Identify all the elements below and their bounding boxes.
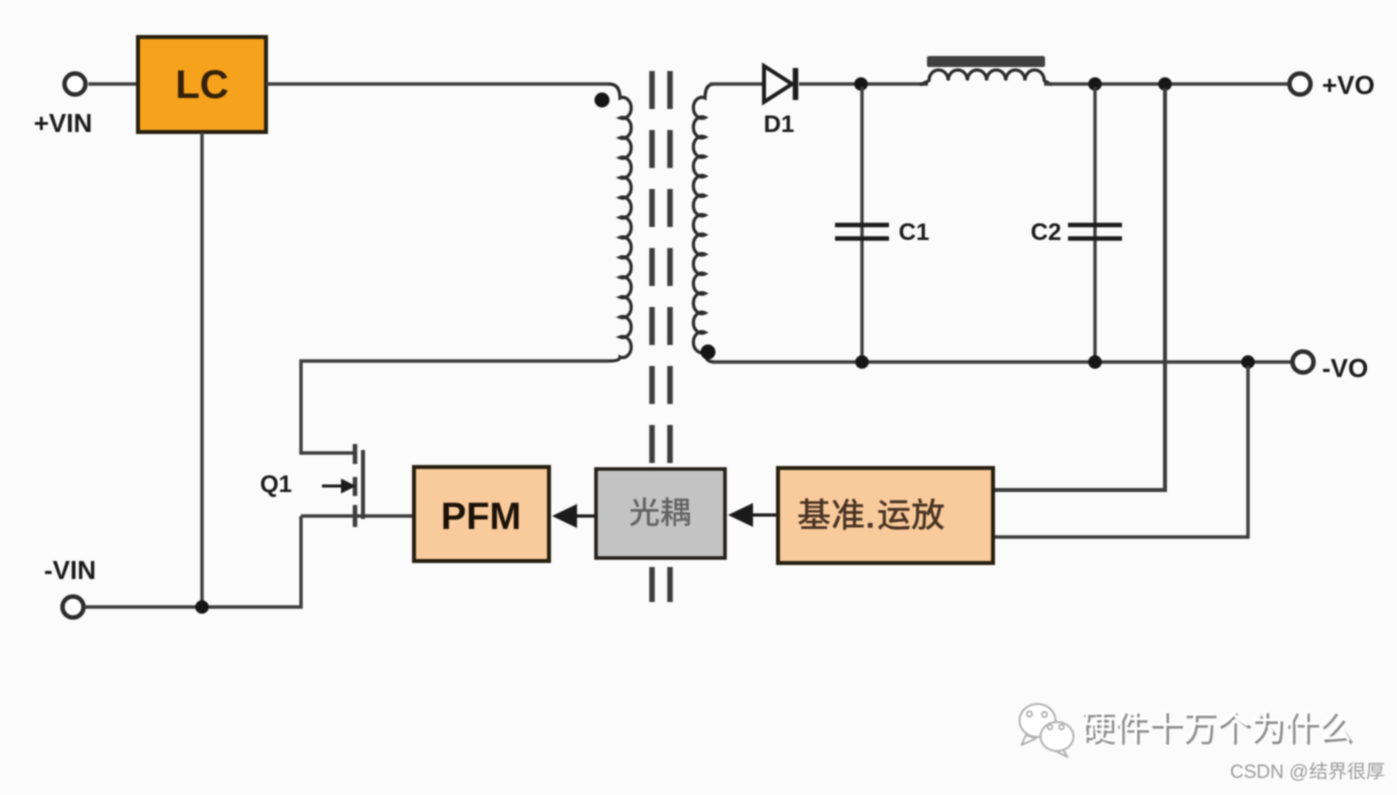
wire Q1 source row to PFM <box>301 514 414 517</box>
terminal +VO <box>1290 74 1311 95</box>
svg-text:CSDN @: CSDN @ <box>1230 762 1308 783</box>
svg-text:+VIN: +VIN <box>34 108 93 138</box>
svg-text:-VIN: -VIN <box>44 555 96 585</box>
feedback wire from +VO node to reference block <box>993 88 1165 490</box>
wire +VIN to LC <box>89 82 139 85</box>
core dash continuation below optocoupler left <box>649 567 655 602</box>
watermark text 硬件十万个为什么 <box>1084 715 1116 745</box>
transformer primary winding <box>609 84 631 361</box>
wire primary bottom to Q1 drain <box>301 361 609 453</box>
block reference and op-amp 基准.运放 <box>778 468 993 563</box>
wire secondary bottom rail to -VO <box>712 360 1291 363</box>
transformer core dashed line right <box>667 71 673 463</box>
wire -VIN rail <box>85 516 302 607</box>
output inductor core bar <box>927 56 1045 67</box>
arrow reference block to optocoupler <box>728 503 779 527</box>
junction dot C2 top node <box>1088 77 1102 91</box>
block PFM <box>414 467 549 561</box>
svg-text:Q1: Q1 <box>260 471 292 498</box>
block optocoupler 光耦 <box>596 469 725 558</box>
svg-text:D1: D1 <box>764 111 795 138</box>
transistor Q1 <box>355 444 363 527</box>
terminal +VIN <box>65 74 86 95</box>
gate arrow of Q1 <box>322 479 356 494</box>
junction dot at D1 output node <box>854 77 868 91</box>
svg-text:C2: C2 <box>1031 219 1062 246</box>
transformer core dashed line left <box>649 71 655 463</box>
wire secondary to D1 anode <box>710 82 766 85</box>
wire inductor to +VO <box>1044 82 1290 85</box>
polarity dot secondary <box>701 345 716 360</box>
svg-text:-VO: -VO <box>1322 353 1368 383</box>
feedback wire from -VO node to reference block <box>993 366 1248 537</box>
transformer secondary winding <box>693 84 714 362</box>
wire D1 to inductor <box>799 82 928 85</box>
capacitor C2 <box>1068 87 1122 360</box>
junction dot C2 bottom <box>1088 355 1102 369</box>
junction dot feedback tap -VO <box>1241 355 1255 369</box>
diode D1 <box>764 66 796 102</box>
svg-text:LC: LC <box>175 63 228 107</box>
terminal -VO <box>1293 352 1314 373</box>
polarity dot primary <box>595 93 610 108</box>
svg-text:C1: C1 <box>899 219 930 246</box>
junction dot feedback tap +VO <box>1158 77 1172 91</box>
output inductor winding <box>920 70 1052 85</box>
arrow optocoupler to PFM <box>552 504 597 528</box>
watermark wechat logo <box>1020 704 1074 757</box>
wire LC to transformer primary <box>266 82 609 85</box>
core dash continuation below optocoupler right <box>667 567 673 602</box>
svg-text:PFM: PFM <box>441 496 521 538</box>
svg-text:+VO: +VO <box>1322 70 1375 100</box>
capacitor C1 <box>835 87 889 360</box>
filter block LC <box>138 37 266 132</box>
terminal -VIN <box>63 597 84 618</box>
wire LC bottom down to -VIN rail <box>200 132 203 606</box>
junction dot on -VIN rail <box>195 600 209 614</box>
junction dot C1 bottom <box>855 355 869 369</box>
